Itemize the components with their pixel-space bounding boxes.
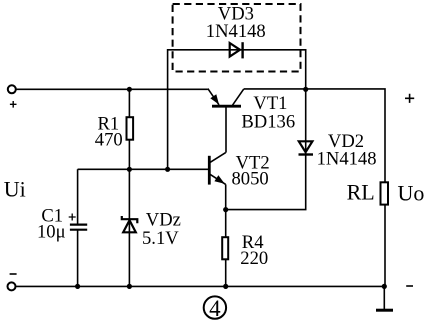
svg-text:4: 4 — [209, 296, 221, 321]
wire C1 branch vertical — [77, 169, 79, 286]
diode VD2 — [299, 141, 314, 154]
resistor R4 — [222, 237, 228, 259]
wire top from input to VT1 emitter — [16, 88, 208, 90]
zener diode VDz — [122, 216, 138, 232]
capacitor C1 — [69, 214, 88, 230]
resistor RL — [381, 182, 389, 204]
resistor R1 — [127, 117, 134, 140]
svg-text:470: 470 — [95, 130, 123, 151]
svg-text:1N4148: 1N4148 — [206, 21, 266, 42]
wire bottom rail — [16, 285, 386, 287]
label minus bottom-right — [406, 285, 413, 287]
wire R1 branch vertical — [128, 89, 130, 169]
wire middle base rail — [78, 168, 209, 170]
node dot bottom right — [382, 284, 387, 289]
svg-text:5.1V: 5.1V — [142, 228, 179, 249]
diode VD3 — [230, 42, 243, 58]
svg-text:Ui: Ui — [4, 177, 26, 202]
svg-text:RL: RL — [347, 179, 375, 204]
terminal input plus — [8, 85, 16, 93]
transistor VT1 — [208, 89, 244, 153]
ground — [383, 286, 385, 309]
figure number 4 — [204, 296, 226, 321]
wire VT1 collector to right — [244, 89, 385, 287]
terminal input minus — [8, 282, 16, 290]
svg-text:1N4148: 1N4148 — [317, 149, 377, 170]
node dot top right junction — [303, 87, 308, 92]
label plus top-left — [10, 101, 17, 108]
svg-text:Uo: Uo — [398, 180, 425, 205]
wire VD3 loop — [168, 50, 306, 170]
label plus top-right — [405, 94, 414, 103]
svg-text:220: 220 — [240, 248, 268, 269]
wire VT2 emitter to R4 — [225, 184, 227, 286]
node dot middle VD3 branch — [165, 167, 170, 172]
node dot bottom C1 — [75, 284, 80, 289]
wire VD2 branch — [226, 89, 306, 209]
svg-text:10μ: 10μ — [37, 221, 66, 242]
label minus bottom-left — [10, 273, 17, 275]
node dot bottom VDz — [127, 284, 132, 289]
node dot emitter junction — [223, 207, 228, 212]
svg-text:BD136: BD136 — [241, 111, 295, 132]
svg-text:8050: 8050 — [232, 169, 269, 190]
node dot middle R1-VDz — [127, 167, 132, 172]
transistor VT2 — [209, 153, 225, 185]
dashed box VD3 — [173, 4, 301, 72]
node dot top R1 — [127, 87, 132, 92]
wire VDz branch vertical — [128, 169, 130, 286]
node dot bottom R4 — [223, 284, 228, 289]
